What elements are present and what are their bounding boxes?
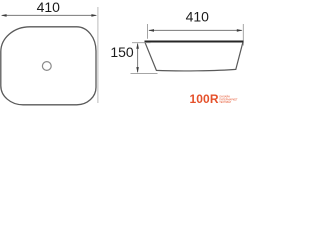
height dimension top arrow	[136, 43, 139, 49]
top view dimension right arrow	[91, 14, 97, 17]
svg-text:100R: 100R	[190, 92, 219, 106]
height bottom extension line	[131, 72, 158, 74]
side view right extension line	[242, 24, 244, 46]
height dimension bottom arrow	[136, 67, 139, 73]
side view dimension line	[149, 29, 242, 31]
top view right extension line	[97, 7, 99, 103]
top view dimension line	[2, 14, 96, 16]
basin side view body outline	[145, 42, 243, 71]
svg-text:ТЕХНИКИ: ТЕХНИКИ	[219, 101, 231, 104]
basin top view outline	[1, 27, 96, 105]
basin side view top rim line	[145, 41, 244, 43]
svg-text:150: 150	[110, 44, 134, 60]
svg-text:410: 410	[186, 9, 210, 25]
side view left extension line	[147, 24, 149, 39]
height dimension line	[137, 44, 139, 73]
svg-text:410: 410	[37, 0, 61, 15]
drain hole circle	[42, 62, 51, 71]
side view dimension left arrow	[148, 29, 154, 32]
height top extension line	[132, 42, 151, 44]
top view dimension left arrow	[1, 14, 7, 17]
side view dimension right arrow	[237, 29, 243, 32]
